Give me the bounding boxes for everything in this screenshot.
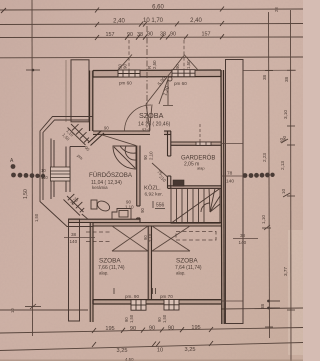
svg-text:1,50: 1,50 [186, 60, 191, 69]
rotated dim at party wall top [143, 233, 153, 242]
svg-text:140: 140 [226, 179, 234, 185]
ridge diagonal 5,90 [146, 56, 184, 105]
garderob south wall / stair top [168, 186, 222, 189]
witness line from top wall to right dims [243, 69, 296, 71]
svg-text:90: 90 [175, 64, 180, 69]
svg-text:FÜRDŐSZOBA: FÜRDŐSZOBA [89, 172, 133, 179]
left lower bar wall [69, 219, 80, 321]
right small ticks [262, 70, 295, 327]
bay window lower SW (hatched band) [64, 194, 89, 219]
svg-text:6,92 ker.: 6,92 ker. [145, 192, 163, 198]
svg-text:1,50: 1,50 [34, 213, 39, 222]
staircase [171, 188, 220, 223]
left roof bar outer faint line [65, 60, 67, 122]
building left wall upper [90, 71, 93, 132]
svg-text:alap.: alap. [176, 271, 186, 276]
garderob north wall [171, 142, 221, 145]
svg-text:140: 140 [70, 239, 78, 244]
witness line across right bar at bottom wall [221, 300, 243, 302]
room label GARDEROB [181, 155, 215, 171]
svg-text:38: 38 [240, 233, 246, 238]
bay window upper NW (hatched band) [68, 124, 90, 145]
svg-text:1,10: 1,10 [125, 205, 134, 210]
svg-text:3,25: 3,25 [117, 348, 128, 354]
svg-text:90: 90 [130, 326, 136, 332]
label KOZL [144, 185, 163, 198]
svg-text:90: 90 [127, 32, 133, 38]
svg-text:38: 38 [284, 76, 289, 82]
garderob door label [156, 169, 167, 183]
party wall between bottom rooms [148, 226, 151, 300]
left cross mark lower [25, 304, 41, 309]
svg-text:2,40: 2,40 [190, 18, 202, 24]
svg-text:2,13: 2,13 [280, 161, 285, 170]
bathroom door leaf [99, 134, 136, 146]
ridge bottom tick [163, 105, 173, 107]
svg-text:1,50: 1,50 [129, 314, 134, 323]
bay dim labels [34, 128, 91, 222]
svg-text:SZOBA: SZOBA [176, 258, 198, 265]
light strip along right edge [288, 230, 303, 355]
right tick line at 78/140 [221, 175, 243, 177]
window top-left [118, 70, 140, 77]
dim line bottom first [0, 328, 303, 334]
garderob north wall window [196, 142, 211, 145]
svg-text:10 1,70: 10 1,70 [143, 18, 164, 24]
svg-text:78: 78 [227, 171, 233, 177]
witness line across right bar at garderob wall [221, 143, 243, 145]
building right wall (cut, dark) [221, 70, 224, 324]
dim line top fourth [0, 56, 303, 59]
svg-text:90: 90 [170, 32, 176, 38]
svg-text:10: 10 [41, 168, 46, 173]
shower [113, 146, 136, 169]
tick marks on dimension lines [1, 7, 224, 348]
garderob window centreline [199, 124, 201, 142]
bathroom bottom wall [69, 219, 140, 222]
svg-text:pm. 90: pm. 90 [125, 294, 139, 299]
centre dash-dot line [146, 26, 148, 130]
top-right tiny marks [274, 7, 279, 12]
door leaf at mid wall A (swings into szoba) [150, 105, 153, 132]
garderob door leaf 75/210 [152, 163, 168, 177]
svg-text:2,23: 2,23 [262, 153, 267, 162]
dim line top third [0, 36, 303, 39]
svg-text:GARDERÓB: GARDERÓB [181, 155, 215, 162]
X mark left room [112, 226, 148, 251]
svg-text:90: 90 [143, 155, 148, 160]
svg-text:90: 90 [149, 326, 155, 332]
washbasin counter [112, 209, 131, 220]
svg-text:1,10: 1,10 [261, 215, 266, 224]
svg-text:2,50: 2,50 [152, 60, 157, 69]
svg-text:10: 10 [157, 348, 163, 354]
room label SZOBA bottom-left [98, 258, 125, 276]
window centreline right [183, 40, 185, 70]
dashed roof lines left room [86, 232, 112, 242]
mid wall A (szoba/közl) [93, 131, 171, 135]
svg-text:3,77: 3,77 [283, 267, 288, 276]
tick line right 38/140 [233, 238, 258, 240]
svg-text:KÖZL.: KÖZL. [144, 185, 161, 192]
right vertical dim line outer [290, 10, 293, 361]
bottom wall [93, 300, 221, 304]
svg-text:10: 10 [281, 188, 286, 194]
svg-text:alap: alap [197, 166, 205, 171]
svg-text:pm 60: pm 60 [174, 81, 187, 86]
svg-text:3,25: 3,25 [185, 347, 196, 353]
dark box 22 [173, 180, 184, 186]
ridge node circle [168, 77, 172, 81]
bay wall outer face band [51, 139, 54, 200]
wall shading tints [69, 70, 224, 324]
svg-text:alap.: alap. [99, 271, 109, 276]
rotated dim 90 210 left of door [143, 151, 154, 160]
door swing arc at mid wall A [124, 105, 151, 131]
svg-text:kerámia: kerámia [92, 185, 108, 190]
svg-text:140: 140 [239, 240, 247, 245]
bathroom east wall (door gap at bottom) [137, 146, 140, 223]
bay roof edge outline [40, 117, 93, 227]
svg-text:38: 38 [137, 32, 143, 38]
bottom window right [164, 300, 179, 311]
38/140 label right [239, 233, 247, 245]
left marker dot under A [11, 164, 16, 169]
dim line bottom partial right [221, 308, 303, 309]
svg-text:90: 90 [147, 32, 153, 38]
svg-text:38: 38 [160, 32, 166, 38]
svg-text:pm 70: pm 70 [160, 294, 173, 299]
svg-text:157: 157 [202, 31, 211, 37]
tick line left 38/140 [64, 237, 95, 239]
label FURDOSZOBA [89, 172, 133, 190]
svg-text:38: 38 [71, 232, 77, 237]
bottom-left szoba west wall [90, 223, 93, 322]
svg-text:556: 556 [156, 203, 165, 209]
svg-text:1,50: 1,50 [23, 189, 29, 199]
dim ticks above bottom wall [114, 288, 156, 294]
svg-text:28: 28 [274, 7, 279, 12]
roof slope diagonal over left window [118, 55, 132, 71]
svg-text:SZOBA: SZOBA [99, 258, 121, 265]
small rotated dims above wall [118, 60, 192, 69]
room label SZOBA top [138, 111, 171, 132]
X mark right room [152, 226, 190, 251]
window top-right [172, 70, 195, 77]
building top wall [93, 70, 221, 77]
dashed rect below stair [176, 232, 216, 241]
wall B between middle zone and bottom rooms [93, 223, 221, 226]
svg-text:90: 90 [123, 64, 128, 69]
svg-text:90: 90 [140, 208, 145, 213]
garderob west wall [168, 131, 171, 188]
bathroom west wall with window band [66, 147, 86, 193]
right 38 double dot ticks [267, 300, 280, 310]
38/140 label left [70, 232, 78, 244]
dim line top second [0, 24, 303, 25]
left cross mark upper [26, 69, 40, 72]
svg-text:6,60: 6,60 [152, 5, 164, 11]
top dim labels [113, 5, 202, 25]
svg-text:22: 22 [175, 181, 180, 186]
78 140 labels [226, 171, 234, 185]
dim line top 6,60 [0, 9, 303, 10]
level mark 556 [153, 201, 165, 209]
room label SZOBA bottom-right [175, 258, 202, 276]
right dots row [243, 173, 275, 178]
dim line bottom second [0, 343, 303, 351]
svg-text:2,10: 2,10 [149, 151, 154, 160]
bottom window left [131, 300, 146, 311]
west wall window symbol [51, 167, 71, 181]
svg-text:pm 60: pm 60 [119, 81, 132, 86]
dim line bottom partial left [0, 309, 88, 311]
svg-text:10: 10 [10, 308, 15, 313]
bathroom NE chamfer wall with door [88, 131, 104, 146]
right roof bar (wall in view) [226, 60, 244, 324]
toilet [91, 199, 111, 213]
photo bottom edge line [0, 360, 303, 361]
roof slope diagonal over right window [184, 55, 198, 71]
ridge vertical tick [167, 79, 169, 105]
left dots row [11, 173, 45, 179]
right vertical dim line inner [269, 12, 270, 338]
ridge diagonal 1,20 [159, 79, 168, 104]
bottom dim labels [105, 325, 200, 354]
svg-text:195: 195 [105, 326, 114, 332]
dim 90 110 near toilet [125, 200, 134, 210]
svg-text:3,10: 3,10 [283, 110, 288, 119]
svg-text:195: 195 [191, 325, 200, 331]
svg-text:90: 90 [168, 325, 174, 331]
ridge diagonal lower segment [146, 104, 150, 130]
svg-text:1,50: 1,50 [162, 314, 167, 323]
right rotated dim labels inner line [260, 74, 267, 309]
left vertical dim line [31, 0, 34, 336]
svg-text:38: 38 [262, 74, 267, 80]
rotated dims under bottom wall left [124, 314, 167, 323]
svg-text:90: 90 [104, 126, 109, 131]
svg-text:157: 157 [106, 32, 115, 38]
left roof bar (wall in view, top) [71, 60, 89, 122]
svg-text:2,40: 2,40 [113, 19, 125, 25]
svg-text:38: 38 [260, 303, 265, 309]
window centreline left [128, 40, 130, 70]
right rotated dim labels outer line [279, 76, 289, 276]
